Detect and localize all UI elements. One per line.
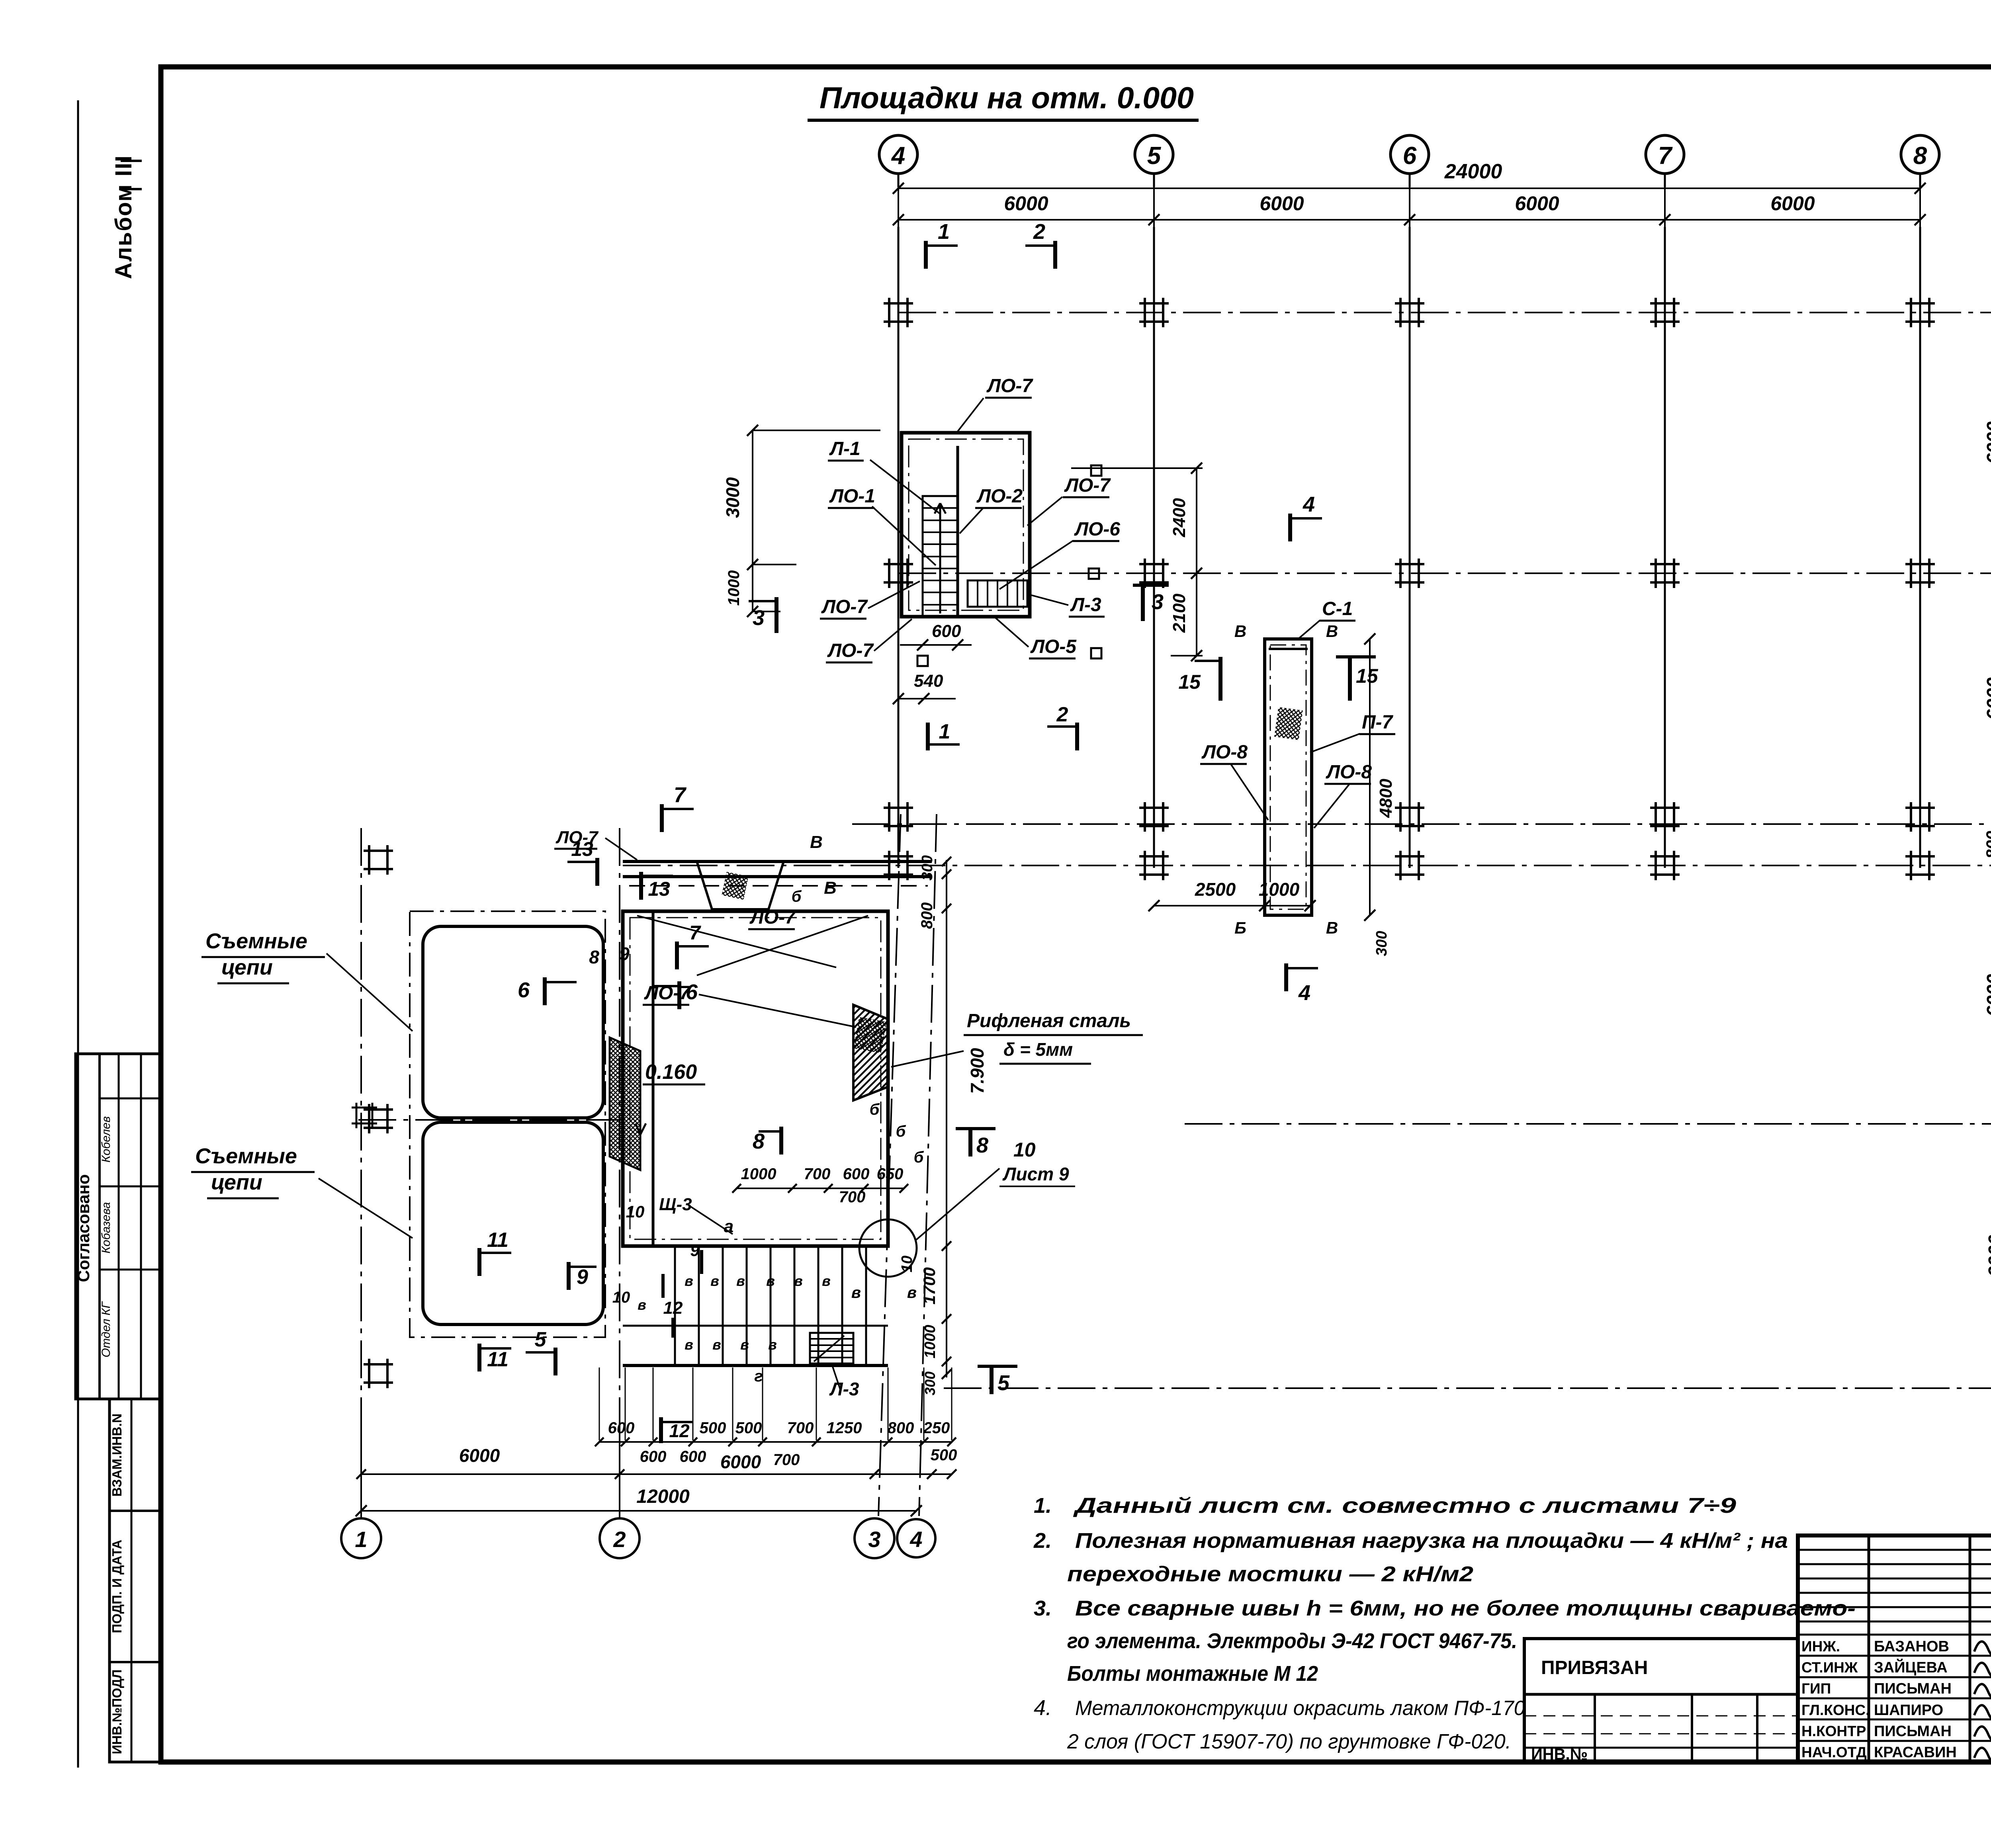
svg-text:1000: 1000 <box>1259 879 1300 900</box>
svg-text:5: 5 <box>997 1371 1010 1395</box>
svg-text:в: в <box>851 1284 861 1301</box>
svg-text:в: в <box>685 1336 693 1353</box>
svg-text:800: 800 <box>888 1419 914 1437</box>
svg-text:800: 800 <box>918 903 936 929</box>
svg-text:10: 10 <box>899 1256 915 1272</box>
svg-text:Кобелев: Кобелев <box>100 1116 113 1162</box>
svg-text:ЛО-5: ЛО-5 <box>1030 636 1077 657</box>
svg-text:8: 8 <box>1913 142 1927 170</box>
svg-text:11: 11 <box>487 1348 509 1371</box>
svg-text:в: в <box>638 1297 646 1313</box>
svg-text:15: 15 <box>1356 665 1379 687</box>
svg-text:В: В <box>1326 622 1338 641</box>
svg-text:ИНВ.№ПОДЛ: ИНВ.№ПОДЛ <box>110 1670 124 1754</box>
svg-text:600: 600 <box>640 1448 667 1465</box>
svg-text:250: 250 <box>923 1419 950 1437</box>
svg-text:ПРИВЯЗАН: ПРИВЯЗАН <box>1541 1657 1648 1678</box>
svg-text:ГИП: ГИП <box>1801 1680 1831 1697</box>
svg-text:в: в <box>907 1284 917 1301</box>
svg-text:Лист 9: Лист 9 <box>1002 1164 1069 1184</box>
svg-text:Полезная нормативная нагрузка: Полезная нормативная нагрузка на площадк… <box>1075 1529 1788 1553</box>
svg-text:Отдел КГ: Отдел КГ <box>100 1301 113 1358</box>
svg-text:2 слоя (ГОСТ 15907-70) по грун: 2 слоя (ГОСТ 15907-70) по грунтовке ГФ-0… <box>1067 1730 1511 1753</box>
svg-text:1000: 1000 <box>922 1325 939 1359</box>
svg-text:в: в <box>736 1273 745 1289</box>
svg-text:а: а <box>724 1217 733 1236</box>
svg-text:С-1: С-1 <box>1322 598 1353 619</box>
svg-text:Альбом III: Альбом III <box>111 155 137 279</box>
svg-text:9: 9 <box>690 1241 700 1260</box>
svg-text:6000: 6000 <box>1983 974 1991 1016</box>
svg-text:В: В <box>824 878 837 898</box>
svg-text:600: 600 <box>680 1448 706 1465</box>
svg-text:4.: 4. <box>1034 1696 1052 1720</box>
svg-text:2100: 2100 <box>1170 594 1189 633</box>
svg-text:3: 3 <box>753 606 765 630</box>
svg-text:б: б <box>792 888 802 905</box>
svg-text:6000: 6000 <box>459 1445 500 1466</box>
svg-text:300: 300 <box>919 855 936 880</box>
svg-text:1: 1 <box>355 1527 367 1552</box>
svg-text:4: 4 <box>909 1527 922 1552</box>
svg-text:ПИСЬМАН: ПИСЬМАН <box>1874 1723 1952 1740</box>
svg-text:0.160: 0.160 <box>645 1061 697 1084</box>
svg-text:в: в <box>822 1273 831 1289</box>
svg-text:П-7: П-7 <box>1362 712 1394 733</box>
svg-text:в: в <box>768 1336 777 1353</box>
svg-text:δ = 5мм: δ = 5мм <box>1003 1039 1073 1060</box>
svg-text:в: в <box>740 1336 749 1353</box>
svg-text:650: 650 <box>877 1165 904 1183</box>
svg-text:1: 1 <box>938 220 950 244</box>
svg-text:КРАСАВИН: КРАСАВИН <box>1874 1744 1957 1761</box>
svg-text:Н.КОНТР: Н.КОНТР <box>1801 1723 1866 1739</box>
svg-text:ИНВ.№: ИНВ.№ <box>1531 1746 1588 1763</box>
svg-text:6: 6 <box>518 978 530 1002</box>
svg-text:Щ-3: Щ-3 <box>659 1195 692 1214</box>
svg-text:500: 500 <box>700 1419 726 1437</box>
svg-text:Б: Б <box>1234 918 1246 937</box>
svg-text:ШАПИРО: ШАПИРО <box>1874 1702 1943 1719</box>
svg-text:переходные мостики — 2 кН/м2: переходные мостики — 2 кН/м2 <box>1067 1562 1473 1586</box>
svg-text:г: г <box>754 1367 763 1385</box>
svg-text:700: 700 <box>773 1451 800 1469</box>
svg-text:2: 2 <box>613 1527 626 1552</box>
svg-text:3: 3 <box>868 1527 880 1552</box>
svg-text:300: 300 <box>1373 931 1390 956</box>
svg-text:Л-3: Л-3 <box>1070 594 1101 615</box>
svg-text:7.900: 7.900 <box>967 1048 988 1094</box>
svg-text:6000: 6000 <box>720 1451 761 1472</box>
svg-text:6: 6 <box>686 980 698 1004</box>
svg-text:5: 5 <box>1147 142 1162 170</box>
svg-text:ЛО-2: ЛО-2 <box>976 486 1023 507</box>
svg-text:Л-3: Л-3 <box>829 1379 859 1399</box>
svg-text:1: 1 <box>939 720 951 743</box>
svg-text:6000: 6000 <box>1983 677 1991 720</box>
svg-text:в: в <box>685 1273 693 1289</box>
svg-text:ЛО-7: ЛО-7 <box>986 375 1033 397</box>
svg-text:ЗАЙЦЕВА: ЗАЙЦЕВА <box>1874 1658 1948 1676</box>
svg-text:1000: 1000 <box>741 1165 776 1183</box>
svg-text:2500: 2500 <box>1195 879 1236 900</box>
svg-text:6000: 6000 <box>1004 192 1048 215</box>
svg-text:ЛО-6: ЛО-6 <box>1074 519 1120 540</box>
svg-text:го элемента. Электроды Э-42 ГО: го элемента. Электроды Э-42 ГОСТ 9467-75… <box>1067 1629 1517 1653</box>
svg-text:Съемные: Съемные <box>195 1144 297 1168</box>
svg-text:ЛО-7: ЛО-7 <box>821 596 868 617</box>
svg-text:600: 600 <box>932 621 961 641</box>
svg-text:800: 800 <box>1983 831 1991 859</box>
svg-text:Кобазева: Кобазева <box>100 1202 113 1253</box>
svg-text:4800: 4800 <box>1376 779 1396 818</box>
svg-text:15: 15 <box>1178 671 1201 693</box>
svg-text:6000: 6000 <box>1985 1235 1991 1277</box>
svg-text:12000: 12000 <box>636 1486 690 1507</box>
svg-text:500: 500 <box>735 1419 762 1437</box>
svg-text:в: в <box>710 1273 719 1289</box>
svg-text:700: 700 <box>787 1419 814 1437</box>
svg-text:10: 10 <box>626 1202 645 1221</box>
svg-text:600: 600 <box>608 1419 635 1437</box>
svg-text:4: 4 <box>1298 981 1310 1005</box>
svg-text:12: 12 <box>663 1298 683 1318</box>
svg-text:7: 7 <box>674 783 687 807</box>
svg-text:13: 13 <box>571 838 593 860</box>
svg-text:ЛО-7: ЛО-7 <box>1064 475 1111 496</box>
svg-text:В: В <box>810 832 823 852</box>
svg-text:2: 2 <box>1033 220 1045 244</box>
svg-text:1.: 1. <box>1034 1494 1052 1518</box>
svg-text:3.: 3. <box>1034 1596 1052 1620</box>
svg-text:8: 8 <box>753 1129 765 1153</box>
svg-text:3: 3 <box>1152 590 1164 614</box>
svg-text:НАЧ.ОТД: НАЧ.ОТД <box>1801 1744 1867 1760</box>
svg-text:б: б <box>914 1149 924 1166</box>
svg-text:Рифленая сталь: Рифленая сталь <box>967 1010 1131 1031</box>
svg-text:600: 600 <box>843 1165 870 1183</box>
svg-text:ЛО-1: ЛО-1 <box>829 486 875 507</box>
svg-text:Л-1: Л-1 <box>829 438 861 459</box>
svg-text:6000: 6000 <box>1515 192 1559 215</box>
svg-text:цепи: цепи <box>211 1170 262 1194</box>
svg-text:ВЗАМ.ИНВ.N: ВЗАМ.ИНВ.N <box>110 1414 124 1497</box>
svg-text:1250: 1250 <box>827 1419 862 1437</box>
svg-text:СТ.ИНЖ: СТ.ИНЖ <box>1801 1659 1858 1676</box>
svg-text:б: б <box>870 1101 880 1118</box>
svg-text:6: 6 <box>1403 142 1417 170</box>
svg-text:300: 300 <box>922 1371 938 1395</box>
svg-text:2.: 2. <box>1033 1529 1052 1553</box>
svg-text:9: 9 <box>619 944 630 964</box>
svg-text:6000: 6000 <box>1770 192 1815 215</box>
svg-text:24000: 24000 <box>1444 160 1502 183</box>
svg-text:в: в <box>712 1336 721 1353</box>
svg-text:9: 9 <box>577 1266 588 1289</box>
svg-text:7: 7 <box>1658 142 1673 170</box>
svg-text:4: 4 <box>1303 492 1315 516</box>
svg-text:Все сварные швы h = 6мм, но не: Все сварные швы h = 6мм, но не более тол… <box>1075 1596 1856 1620</box>
svg-text:ПИСЬМАН: ПИСЬМАН <box>1874 1680 1952 1697</box>
svg-text:В: В <box>1326 918 1338 937</box>
svg-text:ЛО-8: ЛО-8 <box>1326 762 1372 783</box>
svg-text:2: 2 <box>1056 703 1068 726</box>
svg-text:ЛО-7: ЛО-7 <box>749 907 796 928</box>
svg-text:в: в <box>766 1273 775 1289</box>
svg-text:б: б <box>896 1123 906 1140</box>
svg-text:ИНЖ.: ИНЖ. <box>1801 1638 1840 1655</box>
svg-text:5: 5 <box>535 1328 547 1351</box>
svg-text:700: 700 <box>804 1165 831 1183</box>
svg-text:1700: 1700 <box>920 1267 939 1304</box>
svg-text:12: 12 <box>669 1420 690 1441</box>
svg-text:1000: 1000 <box>725 570 743 606</box>
svg-text:7: 7 <box>689 922 701 944</box>
svg-text:6000: 6000 <box>1983 421 1991 464</box>
svg-text:Данный лист см. совместно с ли: Данный лист см. совместно с листами 7÷9 <box>1073 1494 1736 1518</box>
svg-text:10: 10 <box>1013 1139 1036 1161</box>
svg-text:2400: 2400 <box>1170 498 1189 537</box>
svg-text:В: В <box>1234 622 1246 641</box>
svg-text:11: 11 <box>487 1229 509 1252</box>
svg-text:Согласовано: Согласовано <box>74 1174 93 1282</box>
svg-text:Металлоконструкции окрасить ла: Металлоконструкции окрасить лаком ПФ-170 <box>1075 1697 1525 1720</box>
svg-text:500: 500 <box>931 1446 957 1464</box>
svg-text:8: 8 <box>589 947 599 967</box>
svg-text:13: 13 <box>648 878 670 900</box>
svg-text:540: 540 <box>914 671 943 691</box>
svg-text:в: в <box>794 1273 803 1289</box>
svg-text:Съемные: Съемные <box>205 929 307 953</box>
svg-text:6000: 6000 <box>1260 192 1304 215</box>
svg-text:ГЛ.КОНС.: ГЛ.КОНС. <box>1801 1702 1870 1718</box>
svg-text:4: 4 <box>891 142 905 170</box>
svg-text:ЛО-7: ЛО-7 <box>827 640 874 661</box>
svg-text:Площадки на отм. 0.000: Площадки на отм. 0.000 <box>819 81 1194 115</box>
svg-text:10: 10 <box>612 1289 630 1306</box>
svg-text:8: 8 <box>976 1133 988 1157</box>
svg-text:БАЗАНОВ: БАЗАНОВ <box>1874 1638 1949 1655</box>
svg-text:Болты монтажные М 12: Болты монтажные М 12 <box>1067 1662 1318 1686</box>
svg-text:3000: 3000 <box>722 477 743 518</box>
svg-text:ЛО-8: ЛО-8 <box>1201 742 1248 763</box>
svg-text:ПОДП. И ДАТА: ПОДП. И ДАТА <box>110 1539 124 1633</box>
svg-text:цепи: цепи <box>221 955 273 979</box>
